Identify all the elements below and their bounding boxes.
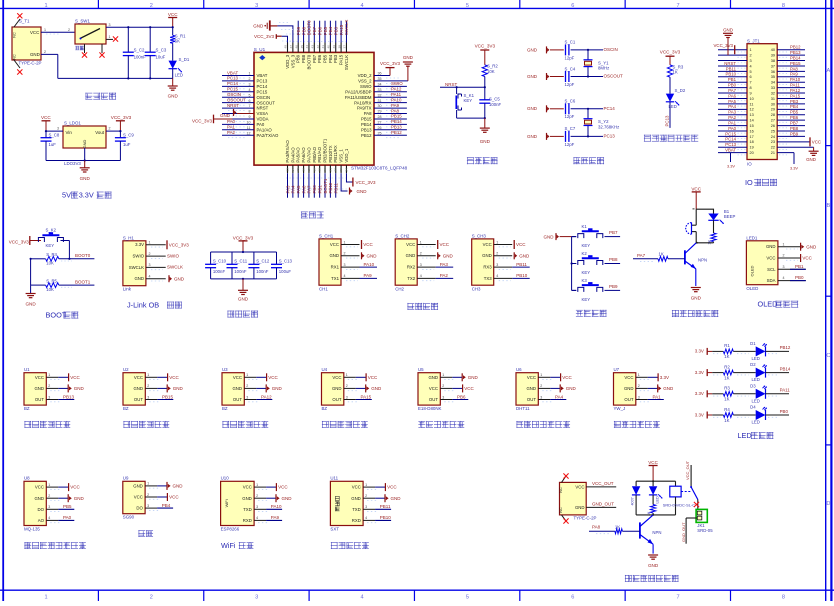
svg-text:GND: GND <box>428 375 438 380</box>
svg-text:1: 1 <box>109 35 111 39</box>
svg-text:GND: GND <box>133 386 143 391</box>
wire CH1 pin1 to VCC <box>341 240 374 249</box>
svg-text:3.3V: 3.3V <box>695 349 704 354</box>
svg-text:3.3V: 3.3V <box>695 391 704 396</box>
wire LDO input <box>45 127 63 133</box>
svg-text:NC: NC <box>13 32 17 38</box>
svg-text:S_R4: S_R4 <box>46 252 57 257</box>
svg-text:PA11: PA11 <box>790 83 800 88</box>
svg-text:41: 41 <box>321 45 325 49</box>
svg-text:PA0: PA0 <box>728 126 736 131</box>
svg-text:35: 35 <box>771 75 775 79</box>
ground GND boot <box>25 285 36 306</box>
svg-text:VCC: VCC <box>70 375 80 380</box>
U1 left pin wires and numbers <box>222 72 254 138</box>
svg-text:PC15: PC15 <box>257 89 268 94</box>
svg-text:1K: 1K <box>708 240 712 245</box>
svg-text:3: 3 <box>638 395 640 399</box>
svg-text:GND: GND <box>527 74 538 79</box>
net label SWCLK <box>167 265 183 270</box>
svg-text:PA9: PA9 <box>391 103 400 108</box>
svg-text:GND: GND <box>82 139 87 148</box>
svg-text:S_H1: S_H1 <box>123 235 135 240</box>
svg-text:S_C13: S_C13 <box>279 259 293 264</box>
ground GND alarm <box>691 288 702 301</box>
filter top bus wire <box>211 251 277 253</box>
svg-text:29: 29 <box>378 110 382 114</box>
svg-text:WiFi: WiFi <box>221 541 236 550</box>
title alarm circuit <box>672 310 718 317</box>
svg-text:3.3V: 3.3V <box>790 166 798 171</box>
svg-text:GND_OUT: GND_OUT <box>681 522 686 542</box>
svg-text:PC13: PC13 <box>725 142 736 147</box>
svg-text:PB12: PB12 <box>361 133 372 138</box>
svg-text:PA9: PA9 <box>271 515 280 520</box>
svg-text:GND: GND <box>282 496 293 501</box>
svg-text:VCC_3V3: VCC_3V3 <box>713 43 733 48</box>
svg-text:PB10: PB10 <box>516 273 528 278</box>
svg-text:4: 4 <box>249 88 251 92</box>
svg-text:24: 24 <box>344 168 348 172</box>
svg-text:GND: GND <box>806 244 817 249</box>
module U9 SG90 <box>123 476 145 520</box>
svg-text:U10: U10 <box>221 476 230 481</box>
svg-text:D1: D1 <box>750 341 756 346</box>
OLED pin1 to GND <box>778 242 817 250</box>
svg-text:3: 3 <box>255 595 258 601</box>
svg-text:34: 34 <box>378 82 382 86</box>
wire U2 pin1 VCC <box>145 373 179 381</box>
svg-text:SRD-05VDC-SL-C: SRD-05VDC-SL-C <box>663 503 695 508</box>
svg-text:8: 8 <box>782 3 785 9</box>
svg-text:19: 19 <box>750 146 754 150</box>
resistor R relay led <box>647 505 656 517</box>
svg-text:VCC: VCC <box>648 460 658 465</box>
svg-text:28: 28 <box>378 115 382 119</box>
svg-text:1: 1 <box>365 483 367 487</box>
svg-text:38: 38 <box>337 45 341 49</box>
svg-text:U2: U2 <box>123 367 129 372</box>
svg-text:26: 26 <box>378 126 382 130</box>
svg-text:LED: LED <box>175 72 183 77</box>
net label GND_OUT vertical wire <box>681 518 698 544</box>
svg-text:18: 18 <box>750 140 754 144</box>
svg-text:11: 11 <box>247 126 251 130</box>
power port VCC_3V3 reset <box>475 44 496 65</box>
svg-text:LED1: LED1 <box>746 236 758 241</box>
wire U3 pin3 PA12 <box>244 394 272 402</box>
title IR module 2 <box>123 421 169 428</box>
svg-text:20: 20 <box>750 151 754 155</box>
svg-text:RX1: RX1 <box>331 265 340 270</box>
svg-text:32: 32 <box>378 93 382 97</box>
title 5V to 3.3V <box>62 191 112 200</box>
svg-text:PA7: PA7 <box>637 253 646 258</box>
svg-text:VCC: VCC <box>562 375 572 380</box>
svg-text:OSCIN: OSCIN <box>227 92 241 97</box>
svg-text:RXD: RXD <box>243 518 252 523</box>
svg-text:PB13: PB13 <box>63 394 75 399</box>
svg-text:GND: GND <box>74 496 85 501</box>
svg-text:LED: LED <box>752 356 760 361</box>
svg-text:1: 1 <box>750 48 752 52</box>
svg-text:PA0: PA0 <box>227 119 236 124</box>
capacitor C7 with PC13 <box>527 126 615 147</box>
svg-text:6: 6 <box>571 3 574 9</box>
svg-text:1: 1 <box>147 482 149 486</box>
svg-text:14: 14 <box>750 119 754 123</box>
J-Link pin wires <box>146 241 166 281</box>
svg-text:NC: NC <box>559 487 563 493</box>
svg-text:PA1: PA1 <box>227 125 236 130</box>
svg-text:DO: DO <box>136 506 143 511</box>
svg-text:LED: LED <box>752 398 760 403</box>
svg-text:BOOT0: BOOT0 <box>75 253 91 258</box>
svg-text:47: 47 <box>289 45 293 49</box>
svg-text:IO: IO <box>747 162 752 167</box>
wire U10 pin3 PA10 <box>254 504 282 512</box>
svg-text:PB14: PB14 <box>780 366 791 371</box>
svg-text:1: 1 <box>344 240 346 244</box>
resistor R4 boot0 <box>31 252 95 265</box>
svg-text:S_Y2: S_Y2 <box>598 119 609 124</box>
wire U3 pin2 GND <box>244 384 282 392</box>
SW1 pin3 wire to VCC bus <box>106 23 173 27</box>
svg-text:VDDA: VDDA <box>257 117 269 122</box>
wire CH3 pin4 to PB10 <box>494 273 530 281</box>
svg-text:LED: LED <box>656 496 660 504</box>
svg-text:PA8: PA8 <box>364 111 372 116</box>
svg-text:GND: GND <box>723 28 733 33</box>
svg-text:VCC_3V3: VCC_3V3 <box>233 235 254 240</box>
U1 bottom pin wires <box>286 165 349 198</box>
relay switch contacts <box>685 460 699 511</box>
svg-text:36: 36 <box>378 72 382 76</box>
svg-text:NRST: NRST <box>227 103 239 108</box>
svg-text:19: 19 <box>318 168 322 172</box>
resistor R2 <box>482 64 498 100</box>
svg-text:PB14: PB14 <box>361 122 372 127</box>
capacitor C10 filter <box>205 252 227 279</box>
svg-text:K1: K1 <box>582 224 588 229</box>
relay contact dashed link <box>681 491 691 493</box>
svg-text:4: 4 <box>48 516 50 520</box>
wire U11 pin1 VCC <box>363 483 397 491</box>
svg-text:VCC_3V3: VCC_3V3 <box>9 239 30 244</box>
svg-text:SCL: SCL <box>767 267 776 272</box>
svg-text:1K: 1K <box>724 354 729 359</box>
capacitor C4 with OSCOUT <box>527 66 623 87</box>
key K2 boot0 <box>38 228 69 259</box>
wire U11 pin2 GND <box>363 494 401 502</box>
svg-text:PA9/TX: PA9/TX <box>357 106 372 111</box>
svg-text:15: 15 <box>296 168 300 172</box>
svg-text:D2: D2 <box>750 362 756 367</box>
svg-text:4007: 4007 <box>631 497 635 505</box>
svg-text:GND: GND <box>238 297 249 302</box>
wire U9 pin3 PB4 <box>145 503 173 511</box>
svg-text:PA10: PA10 <box>271 504 282 509</box>
U1 top net labels rotated <box>296 20 349 36</box>
svg-text:VCC_3V3: VCC_3V3 <box>254 34 275 39</box>
svg-text:22: 22 <box>334 168 338 172</box>
svg-text:PB11: PB11 <box>516 262 527 267</box>
regulator LDO1 <box>63 121 106 166</box>
wire CH1 pin2 to GND <box>341 252 377 260</box>
svg-text:SXT: SXT <box>330 527 339 532</box>
svg-text:PB3: PB3 <box>334 26 339 35</box>
svg-text:VCC: VCC <box>483 242 492 247</box>
svg-text:GND: GND <box>480 139 491 144</box>
title crystal circuit <box>573 157 604 164</box>
svg-text:PB14: PB14 <box>391 119 402 124</box>
svg-text:VCC: VCC <box>440 242 450 247</box>
title J-Link OB <box>127 301 182 310</box>
svg-text:PB8: PB8 <box>790 126 799 131</box>
svg-text:PA7: PA7 <box>307 185 312 194</box>
svg-text:PB13: PB13 <box>361 127 372 132</box>
svg-text:24: 24 <box>771 135 775 139</box>
svg-text:21: 21 <box>328 168 332 172</box>
svg-text:GND: GND <box>544 234 555 239</box>
svg-text:PB15: PB15 <box>361 117 372 122</box>
svg-text:3: 3 <box>496 263 498 267</box>
svg-text:GND: GND <box>30 52 40 57</box>
svg-text:VSS_1: VSS_1 <box>339 149 344 163</box>
svg-text:BZ: BZ <box>222 406 228 411</box>
JT1 left net labels <box>724 61 736 153</box>
svg-text:GND: GND <box>34 386 44 391</box>
power port VCC_3V3 filter <box>233 235 254 252</box>
U1 right pin wires and numbers <box>374 72 408 138</box>
svg-text:PB0: PB0 <box>312 185 317 194</box>
svg-text:PA4/AO: PA4/AO <box>290 147 295 163</box>
svg-text:PA12: PA12 <box>391 87 402 92</box>
svg-text:KEY: KEY <box>582 270 591 275</box>
svg-text:SWIO: SWIO <box>391 81 403 86</box>
diode D5 1N4007 flyback <box>631 486 641 515</box>
svg-text:1: 1 <box>44 595 47 601</box>
svg-text:GND: GND <box>766 244 776 249</box>
svg-text:PB11/RX: PB11/RX <box>333 145 338 162</box>
svg-text:VCC: VCC <box>330 242 339 247</box>
svg-text:3: 3 <box>48 395 50 399</box>
svg-text:PB6: PB6 <box>457 394 466 399</box>
svg-text:OSCOUT: OSCOUT <box>604 74 624 79</box>
svg-text:3: 3 <box>783 265 785 269</box>
svg-text:12pF: 12pF <box>565 142 575 147</box>
svg-text:1: 1 <box>48 373 50 377</box>
power port VCC_3V3 runled <box>660 50 681 65</box>
module U2 BZ <box>123 367 145 411</box>
svg-text:VBAT: VBAT <box>227 70 238 75</box>
svg-text:9: 9 <box>750 91 752 95</box>
svg-text:GND: GND <box>527 47 538 52</box>
svg-text:3.3V: 3.3V <box>695 412 704 417</box>
module U1 BZ <box>24 367 46 411</box>
LED D1 led row <box>750 341 791 361</box>
svg-text:VCC_OUT: VCC_OUT <box>685 460 690 480</box>
svg-text:9: 9 <box>249 115 251 119</box>
svg-text:RX2: RX2 <box>407 265 416 270</box>
LED D4 led row <box>750 405 789 425</box>
svg-text:PA1: PA1 <box>653 394 662 399</box>
svg-text:TXD: TXD <box>243 507 252 512</box>
svg-text:NPN: NPN <box>652 530 661 535</box>
svg-text:5: 5 <box>249 93 251 97</box>
svg-text:TYPE-C-2P: TYPE-C-2P <box>19 61 42 66</box>
svg-text:VCC: VCC <box>35 375 44 380</box>
svg-text:35: 35 <box>378 77 382 81</box>
title keys circuit <box>576 310 607 317</box>
svg-text:GND: GND <box>134 276 144 281</box>
svg-text:1: 1 <box>783 242 785 246</box>
svg-text:GND: GND <box>443 253 454 258</box>
svg-text:PA2: PA2 <box>440 273 449 278</box>
net label GND_OUT wire <box>586 502 616 508</box>
svg-text:10: 10 <box>750 97 754 101</box>
svg-text:14: 14 <box>291 168 295 172</box>
wire U4 pin3 PA15 <box>344 394 372 402</box>
svg-text:PB10/TX: PB10/TX <box>328 145 333 162</box>
wire LDO output <box>106 127 122 133</box>
svg-text:2: 2 <box>249 77 251 81</box>
wire U7 pin2 GND <box>636 384 674 392</box>
key K1 reset button <box>456 86 475 118</box>
svg-text:12: 12 <box>750 108 754 112</box>
svg-text:VCC: VCC <box>278 485 288 490</box>
crystal Y1 8MHz <box>584 50 610 77</box>
wire U10 pin4 PA9 <box>254 515 282 523</box>
svg-text:3: 3 <box>147 504 149 508</box>
buzzer B1 BEEP <box>686 209 736 243</box>
svg-text:VCC: VCC <box>766 256 775 261</box>
svg-text:4: 4 <box>420 274 422 278</box>
svg-text:J-Link OB: J-Link OB <box>127 301 159 310</box>
svg-text:S_CH3: S_CH3 <box>472 234 487 239</box>
JT1 pin21 stub <box>790 153 798 171</box>
svg-text:OUT: OUT <box>233 397 242 402</box>
no-connect X marks on T2 <box>563 473 568 523</box>
svg-text:2: 2 <box>147 384 149 388</box>
wire U11 pin3 PB11 <box>363 504 391 512</box>
svg-text:1: 1 <box>48 483 50 487</box>
svg-text:3.3V: 3.3V <box>79 191 94 200</box>
svg-text:5: 5 <box>750 70 752 74</box>
capacitor C5 <box>479 97 501 119</box>
svg-text:K3: K3 <box>582 278 588 283</box>
svg-text:GND: GND <box>173 386 184 391</box>
svg-text:S_C9: S_C9 <box>123 133 134 138</box>
svg-text:PB4: PB4 <box>790 104 799 109</box>
svg-text:PB9: PB9 <box>790 131 799 136</box>
svg-text:S_R2: S_R2 <box>487 64 498 69</box>
power port VCC_3V3 boot <box>9 236 41 245</box>
connector JK1 SRD terminal <box>696 509 713 532</box>
svg-text:3: 3 <box>442 395 444 399</box>
svg-text:GND: GND <box>482 253 492 258</box>
svg-text:16: 16 <box>302 168 306 172</box>
svg-text:OSCIN: OSCIN <box>257 95 271 100</box>
power port VCC_3V3 at U1 VDD_2 <box>380 61 401 76</box>
svg-text:PC14: PC14 <box>227 81 239 86</box>
svg-text:GND: GND <box>527 134 538 139</box>
crystal Y2 32.768KHz <box>584 109 620 137</box>
svg-text:VCC: VCC <box>406 242 415 247</box>
title liquid level module <box>614 421 660 428</box>
U1 bottom pin names <box>285 138 349 162</box>
wire CH2 pin4 to PA2 <box>417 273 453 281</box>
svg-text:S_SW1: S_SW1 <box>75 19 90 24</box>
U1 VSS_1 wire to GND arrow <box>341 173 367 194</box>
svg-text:31: 31 <box>378 99 382 103</box>
svg-text:45: 45 <box>300 45 304 49</box>
wire VCC vertical <box>172 26 174 35</box>
svg-text:VCC: VCC <box>691 186 701 191</box>
svg-text:12pF: 12pF <box>565 55 575 60</box>
svg-text:1: 1 <box>246 373 248 377</box>
svg-text:CH3: CH3 <box>472 287 481 292</box>
wire CH3 pin3 to PB11 <box>494 262 530 270</box>
svg-text:PB6: PB6 <box>317 54 322 63</box>
svg-text:PC15: PC15 <box>725 131 736 136</box>
wire U8 pin2 GND <box>46 494 84 502</box>
svg-text:3.3V: 3.3V <box>135 242 144 247</box>
svg-text:S_R3: S_R3 <box>673 64 684 69</box>
wire CH2 pin2 to GND <box>417 252 453 260</box>
svg-text:4: 4 <box>365 516 367 520</box>
power port VCC_3V3 to U1 VDD_3 <box>254 34 293 42</box>
svg-text:VCC: VCC <box>352 485 361 490</box>
ground arrow into U1 VSSA <box>220 109 254 118</box>
svg-text:1K: 1K <box>659 251 664 256</box>
svg-text:GND: GND <box>357 189 368 194</box>
wire CH2 pin1 to VCC <box>417 240 450 249</box>
filter bottom bus wire <box>211 278 277 280</box>
svg-text:25: 25 <box>771 129 775 133</box>
OLED pin3 net PB1 <box>778 264 806 269</box>
svg-text:13: 13 <box>750 113 754 117</box>
svg-text:4: 4 <box>496 274 498 278</box>
svg-text:BOOT0: BOOT0 <box>306 54 311 69</box>
svg-text:S_C10: S_C10 <box>213 259 227 264</box>
svg-text:VDD_1: VDD_1 <box>344 148 349 162</box>
LED D2 program indicator <box>665 88 686 128</box>
title servo <box>138 530 153 537</box>
ground arrow to U1 VSS_3 <box>253 20 293 42</box>
SW1 pin1 stub with X <box>106 35 118 42</box>
connector T1 TYPE-C-2P <box>12 19 42 68</box>
svg-text:PB8: PB8 <box>301 26 306 35</box>
svg-text:GND: GND <box>806 157 816 162</box>
transistor Q2 NPN relay <box>640 515 662 554</box>
svg-text:S_C12: S_C12 <box>256 259 270 264</box>
wire U7 pin1 3.3V <box>636 373 669 381</box>
svg-text:1uF: 1uF <box>123 142 131 147</box>
title power circuit <box>85 93 116 100</box>
svg-text:OUT: OUT <box>429 397 438 402</box>
svg-text:PA10: PA10 <box>391 97 402 102</box>
title IR module 4 <box>322 421 368 428</box>
svg-text:OUT: OUT <box>332 397 341 402</box>
svg-text:100nF: 100nF <box>234 269 247 274</box>
svg-text:1: 1 <box>638 373 640 377</box>
svg-text:VCC: VCC <box>387 485 397 490</box>
wire U3 pin1 VCC <box>244 373 278 381</box>
svg-text:32: 32 <box>771 91 775 95</box>
wire U10 pin1 VCC <box>254 483 288 491</box>
svg-text:12pF: 12pF <box>565 82 575 87</box>
